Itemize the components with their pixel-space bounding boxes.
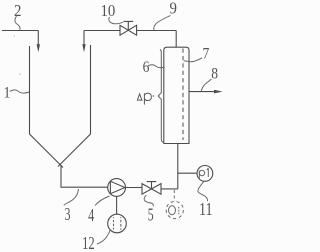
- svg-text:5: 5: [148, 205, 154, 225]
- svg-text:1: 1: [4, 85, 11, 102]
- svg-text:4: 4: [88, 206, 94, 226]
- svg-text:3: 3: [65, 205, 71, 225]
- svg-text:7: 7: [203, 46, 210, 63]
- svg-text:9: 9: [169, 0, 177, 18]
- svg-text:12: 12: [82, 234, 95, 252]
- svg-text:10: 10: [100, 2, 115, 20]
- svg-text:8: 8: [211, 65, 218, 82]
- svg-text:2: 2: [14, 2, 21, 20]
- svg-text:6: 6: [143, 59, 150, 76]
- svg-text:11: 11: [199, 201, 213, 220]
